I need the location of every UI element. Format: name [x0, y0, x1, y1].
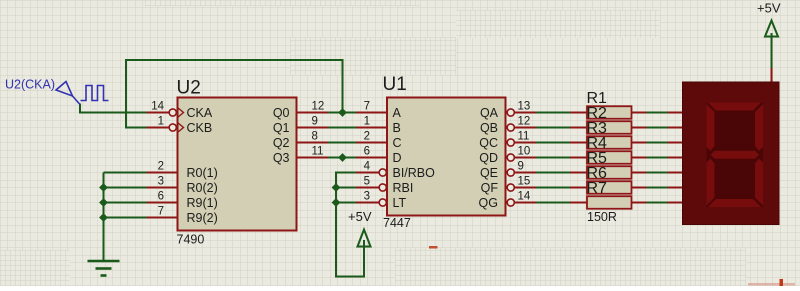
wire reset pin — [104, 187, 147, 189]
svg-text:9: 9 — [518, 161, 524, 173]
node reset junction — [99, 213, 108, 222]
svg-text:QC: QC — [479, 136, 498, 150]
display pin stub — [668, 157, 683, 159]
generator symbol U2(CKA) — [56, 82, 73, 97]
node LT junction — [332, 198, 341, 207]
pin output stub U1 — [515, 187, 537, 189]
pin output stub U1 — [515, 157, 537, 159]
svg-text:R9(2): R9(2) — [187, 211, 218, 225]
resistor stubs — [570, 187, 587, 189]
ground — [88, 260, 120, 263]
pin input stub U1 — [356, 157, 387, 159]
resistor R1 — [587, 106, 632, 119]
svg-text:1: 1 — [158, 116, 164, 128]
output bubble U1 — [507, 184, 514, 191]
pin output stub U1 — [515, 202, 537, 204]
svg-text:QD: QD — [479, 151, 498, 165]
output bubble U1 — [507, 199, 514, 206]
display pin stub — [668, 112, 683, 114]
wire reset pin — [104, 202, 147, 204]
svg-text:1: 1 — [364, 116, 370, 128]
wire R3 to display — [647, 142, 668, 144]
IC U1 7447 body — [387, 98, 506, 216]
IC U2 7490 body — [178, 98, 297, 231]
pin reset stub — [147, 217, 178, 219]
svg-text:QE: QE — [480, 166, 498, 180]
pin Q output stub U2 — [297, 112, 329, 114]
display top pin stub — [771, 68, 773, 83]
pin output stub U1 — [515, 172, 537, 174]
wire QD to R4 — [536, 157, 570, 159]
svg-text:13: 13 — [518, 101, 531, 113]
svg-text:8: 8 — [312, 131, 318, 143]
wire clock input to CKA — [80, 104, 147, 113]
resistor R3 — [587, 136, 632, 149]
svg-text:U2: U2 — [177, 78, 201, 99]
svg-text:CKB: CKB — [187, 121, 213, 135]
svg-text:CKA: CKA — [187, 106, 213, 120]
svg-text:4: 4 — [364, 161, 371, 173]
display pin stub — [668, 187, 683, 189]
wire R5 to display — [647, 172, 668, 174]
svg-text:2: 2 — [364, 131, 370, 143]
node RBI junction — [332, 183, 341, 192]
svg-text:QB: QB — [480, 121, 498, 135]
svg-text:R0(1): R0(1) — [187, 166, 218, 180]
output bubble U1 — [507, 109, 514, 116]
output bubble U1 — [507, 154, 514, 161]
resistor stubs — [570, 172, 587, 174]
artifact red dash — [429, 246, 438, 249]
svg-text:6: 6 — [364, 146, 370, 158]
svg-text:R9(1): R9(1) — [187, 196, 218, 210]
pin input stub U1 bubbled — [356, 172, 379, 174]
resistor stubs — [570, 202, 587, 204]
svg-text:Q0: Q0 — [273, 106, 290, 120]
svg-text:3: 3 — [158, 176, 164, 188]
svg-text:12: 12 — [312, 101, 325, 113]
wire QE to R5 — [536, 172, 570, 174]
wire QF to R6 — [536, 187, 570, 189]
pin CKA stub — [147, 112, 170, 114]
7-segment display body — [683, 82, 780, 225]
artifact bottom right mark — [780, 279, 784, 286]
wire R7 to display — [647, 202, 668, 204]
wire BI/RBO RBI LT to +5V — [336, 173, 364, 277]
clock pin bubble U2 — [169, 109, 176, 116]
svg-text:R7: R7 — [587, 180, 608, 197]
svg-text:+5V: +5V — [757, 1, 781, 16]
artifact bottom smudge — [748, 283, 795, 286]
input bubble U1 — [379, 169, 386, 176]
svg-text:U2(CKA): U2(CKA) — [5, 78, 55, 92]
svg-text:Q1: Q1 — [273, 121, 290, 135]
node Q0 junction — [338, 108, 347, 117]
svg-text:C: C — [393, 136, 402, 150]
svg-text:7447: 7447 — [383, 216, 411, 230]
pin reset stub — [147, 187, 178, 189]
wire Q3 to U1 — [328, 157, 356, 159]
resistor stubs — [570, 112, 587, 114]
resistor stubs — [570, 157, 587, 159]
svg-text:9: 9 — [312, 116, 318, 128]
svg-text:15: 15 — [518, 176, 531, 188]
wire reset pin — [104, 217, 147, 219]
pin input stub U1 bubbled — [356, 202, 379, 204]
svg-text:7: 7 — [364, 101, 370, 113]
pin Q output stub U2 — [297, 142, 329, 144]
wire display anode to +5V — [771, 37, 773, 69]
output bubble U1 — [507, 139, 514, 146]
pin input stub U1 — [356, 127, 387, 129]
svg-text:14: 14 — [518, 191, 531, 203]
+5V power arrow top right — [771, 33, 773, 37]
svg-text:6: 6 — [158, 191, 164, 203]
svg-text:11: 11 — [312, 146, 324, 158]
wire QC to R3 — [536, 142, 570, 144]
svg-text:12: 12 — [518, 116, 531, 128]
svg-text:BI/RBO: BI/RBO — [393, 166, 436, 180]
pin reset stub — [147, 172, 178, 174]
svg-text:7: 7 — [158, 206, 164, 218]
display pin stub — [668, 127, 683, 129]
pin Q output stub U2 — [297, 157, 329, 159]
generator waveform — [81, 86, 109, 101]
svg-text:LT: LT — [393, 196, 407, 210]
wire R6 to display — [647, 187, 668, 189]
segment g — [711, 151, 760, 159]
resistor stubs — [570, 127, 587, 129]
svg-text:Q2: Q2 — [273, 136, 290, 150]
input bubble U1 — [379, 199, 386, 206]
node reset junction — [99, 198, 108, 207]
svg-text:U1: U1 — [383, 74, 407, 95]
output bubble U1 — [507, 169, 514, 176]
svg-text:QF: QF — [481, 181, 499, 195]
wire R2 to display — [647, 127, 668, 129]
resistor R4 — [587, 151, 632, 164]
svg-text:150R: 150R — [587, 210, 617, 224]
svg-text:7490: 7490 — [177, 233, 205, 247]
wire R1 to display — [647, 112, 668, 114]
pin input stub U1 — [356, 142, 387, 144]
svg-text:R0(2): R0(2) — [187, 181, 218, 195]
segment b — [755, 104, 763, 151]
+5V power arrow bottom — [358, 230, 371, 247]
svg-text:5: 5 — [364, 176, 370, 188]
segment e — [707, 159, 715, 206]
segment f — [707, 104, 715, 151]
display pin stub — [668, 142, 683, 144]
clock pin bubble U2 — [169, 124, 176, 131]
pin input stub U1 bubbled — [356, 187, 379, 189]
pin Q output stub U2 — [297, 127, 329, 129]
wire Q1 to U1 — [328, 127, 356, 129]
pin reset stub — [147, 202, 178, 204]
dense grid patches — [145, 0, 420, 6]
resistor R6 — [587, 181, 632, 194]
node reset junction — [99, 183, 108, 192]
svg-text:Q3: Q3 — [273, 151, 290, 165]
output bubble U1 — [507, 124, 514, 131]
wire Q0 to U1 — [328, 112, 356, 114]
svg-text:3: 3 — [364, 191, 370, 203]
svg-text:10: 10 — [518, 146, 531, 158]
svg-text:B: B — [393, 121, 401, 135]
wire top loop Q0 to CKB — [126, 60, 343, 128]
svg-text:+5V: +5V — [348, 209, 372, 224]
svg-text:A: A — [393, 106, 402, 120]
node D junction — [338, 153, 347, 162]
svg-text:QA: QA — [480, 106, 499, 120]
wire reset pin — [104, 172, 147, 174]
display pin stub — [668, 202, 683, 204]
resistor R2 — [587, 121, 632, 134]
resistor R7 — [587, 196, 632, 209]
svg-text:11: 11 — [518, 131, 530, 143]
wire R0/R9 bus vertical — [103, 173, 105, 262]
pin CKB stub — [147, 127, 170, 129]
wire R4 to display — [647, 157, 668, 159]
clock chevron — [178, 123, 184, 133]
digit backdrop — [707, 103, 764, 208]
wire QG to R7 — [536, 202, 570, 204]
segment a — [708, 103, 761, 111]
pin output stub U1 — [515, 112, 537, 114]
wire Q2 to U1 — [328, 142, 356, 144]
resistor R5 — [587, 166, 632, 179]
pin output stub U1 — [515, 127, 537, 129]
resistor stubs — [570, 142, 587, 144]
display pin stub — [668, 172, 683, 174]
segment c — [755, 159, 763, 206]
input bubble U1 — [379, 184, 386, 191]
pin output stub U1 — [515, 142, 537, 144]
wire QA to R1 — [536, 112, 570, 114]
clock chevron — [178, 108, 184, 118]
pin input stub U1 — [356, 112, 387, 114]
svg-text:RBI: RBI — [393, 181, 414, 195]
segment d — [708, 199, 761, 207]
wire QB to R2 — [536, 127, 570, 129]
svg-text:D: D — [393, 151, 402, 165]
svg-text:2: 2 — [158, 161, 164, 173]
svg-text:14: 14 — [151, 101, 164, 113]
svg-text:QG: QG — [479, 196, 498, 210]
